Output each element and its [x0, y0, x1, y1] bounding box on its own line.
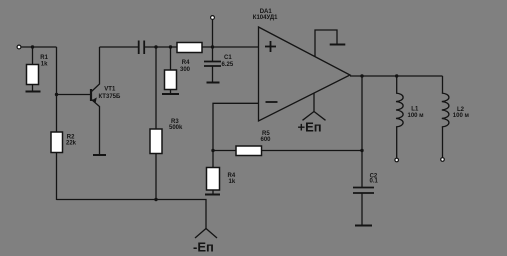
svg-text:500k: 500k [169, 125, 183, 131]
svg-text:L1: L1 [411, 107, 419, 113]
svg-text:C1: C1 [224, 55, 232, 61]
svg-text:R4: R4 [182, 60, 190, 66]
svg-text:6.25: 6.25 [222, 62, 234, 68]
svg-text:600: 600 [261, 137, 272, 143]
svg-text:1k: 1k [41, 61, 48, 67]
svg-text:К104УД1: К104УД1 [253, 15, 278, 21]
svg-text:+Еп: +Еп [298, 119, 322, 134]
svg-text:100 м: 100 м [453, 113, 470, 119]
svg-text:-Еп: -Еп [193, 240, 214, 255]
svg-text:R1: R1 [40, 55, 48, 61]
svg-text:22k: 22k [66, 141, 77, 147]
svg-text:100 м: 100 м [408, 113, 425, 119]
svg-text:1k: 1k [229, 179, 236, 185]
svg-text:DA1: DA1 [260, 9, 273, 15]
svg-text:VT1: VT1 [104, 87, 116, 93]
svg-text:0.1: 0.1 [370, 179, 379, 185]
svg-text:КТ375Б: КТ375Б [99, 94, 121, 100]
svg-text:300: 300 [180, 67, 191, 73]
